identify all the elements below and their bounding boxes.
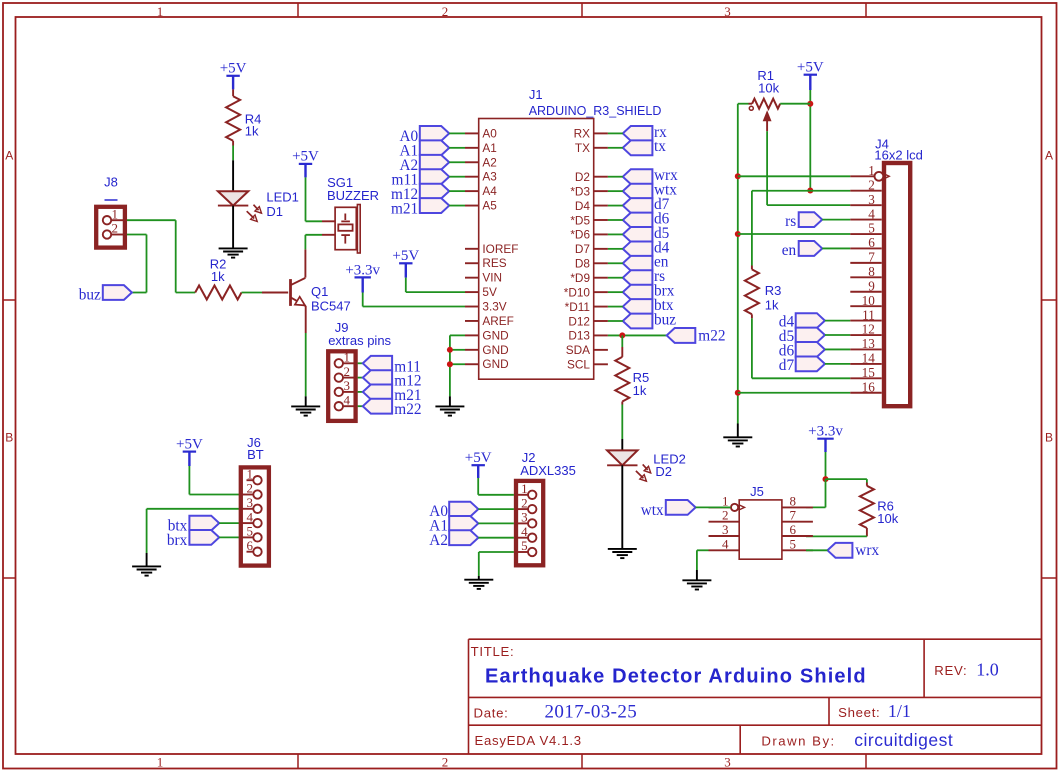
net flag d5 at J1 right bbox=[623, 227, 653, 242]
J2 pin 1 circle bbox=[528, 491, 536, 499]
wire J8 pin1 to R2 bbox=[127, 219, 176, 221]
J1 pin 3.3V stub bbox=[465, 306, 479, 308]
wire +5V to J6 pin2 bbox=[188, 466, 190, 495]
net flag wrx bbox=[828, 543, 853, 558]
svg-text:2: 2 bbox=[112, 221, 119, 236]
wire pin1 net bbox=[738, 175, 851, 177]
J1 pin D2 stub bbox=[594, 176, 608, 178]
svg-text:3: 3 bbox=[868, 192, 875, 207]
svg-text:1/1: 1/1 bbox=[888, 701, 911, 721]
J6 pin 5 circle bbox=[253, 533, 261, 541]
svg-text:SCL: SCL bbox=[567, 358, 590, 372]
svg-text:16: 16 bbox=[862, 379, 876, 394]
svg-text:A2: A2 bbox=[482, 155, 496, 169]
wire m21 to J1 bbox=[449, 205, 465, 207]
svg-text:4: 4 bbox=[521, 524, 528, 539]
wire J1 to buz bbox=[608, 320, 623, 322]
wire J2 pin5 to ground bbox=[479, 551, 514, 553]
svg-text:Q1: Q1 bbox=[311, 284, 328, 299]
svg-text:BT: BT bbox=[247, 447, 264, 462]
wire R1 wiper to pin3 bbox=[766, 131, 768, 205]
J4 pin 12 stub bbox=[850, 334, 881, 336]
potentiometer R1 10k bbox=[752, 99, 780, 109]
wire A0 to J2 pin2 bbox=[478, 508, 514, 510]
svg-text:*D6: *D6 bbox=[570, 228, 590, 242]
svg-text:A5: A5 bbox=[482, 199, 497, 213]
J4 pin 9 stub bbox=[850, 291, 881, 293]
wire pin2 net bbox=[752, 190, 850, 192]
ground at LED2 bbox=[608, 548, 637, 550]
svg-text:Sheet:: Sheet: bbox=[838, 705, 880, 720]
svg-text:wrx: wrx bbox=[855, 542, 879, 559]
J4 pin 6 stub bbox=[850, 247, 881, 249]
wire J1 to btx bbox=[608, 306, 623, 308]
svg-text:+3.3v: +3.3v bbox=[345, 262, 380, 278]
wire pin5 net bbox=[738, 233, 851, 235]
svg-text:A3: A3 bbox=[482, 170, 497, 184]
J5 pin1 indicator circle bbox=[731, 504, 738, 511]
J5 pin1 arrow bbox=[739, 505, 745, 510]
wire J9 pin 2 to m12 bbox=[358, 377, 363, 379]
J5 pin 4 stub bbox=[709, 549, 740, 551]
wire m12 to J1 bbox=[449, 190, 465, 192]
wire to ground (black) bbox=[449, 396, 451, 406]
svg-text:d7: d7 bbox=[779, 357, 795, 374]
J9 pin 2 stub bbox=[343, 377, 358, 379]
svg-text:D2: D2 bbox=[575, 170, 590, 184]
J1 pin AREF stub bbox=[465, 320, 479, 322]
J1 pin D12 stub bbox=[594, 320, 608, 322]
J8 pin 2 stub bbox=[111, 234, 127, 236]
wire Q1 emitter to ground bbox=[305, 306, 307, 333]
svg-text:1: 1 bbox=[521, 481, 528, 496]
svg-text:D12: D12 bbox=[568, 314, 590, 328]
wire J6 pin3 to ground bbox=[147, 508, 239, 510]
wire btx to J6 pin4 bbox=[219, 522, 238, 524]
wire +3.3v to junction bbox=[825, 452, 827, 479]
J1 pin A2 stub bbox=[465, 161, 479, 163]
svg-text:brx: brx bbox=[167, 532, 188, 549]
frame left tick bbox=[3, 577, 16, 579]
svg-text:RX: RX bbox=[574, 127, 591, 141]
wire J9 pin 1 to m11 bbox=[358, 362, 363, 364]
transistor Q1 BC547 bbox=[262, 292, 288, 294]
svg-text:J5: J5 bbox=[750, 484, 764, 499]
svg-text:B: B bbox=[1045, 431, 1053, 445]
connector J9 body bbox=[328, 351, 355, 421]
svg-text:7: 7 bbox=[868, 250, 875, 265]
net flag A1 at J1 left bbox=[420, 140, 449, 155]
J4 pin 4 stub bbox=[850, 219, 881, 221]
J1 pin GND stub bbox=[465, 349, 479, 351]
J9 pin 1 stub bbox=[343, 362, 358, 364]
svg-text:rs: rs bbox=[785, 213, 796, 230]
svg-text:1: 1 bbox=[344, 350, 351, 365]
LED LED2 D2 bbox=[607, 450, 637, 465]
wire pin16 net bbox=[738, 392, 851, 394]
wire d4 to pin11 bbox=[825, 320, 850, 322]
J6 pin 6 circle bbox=[253, 548, 261, 556]
net flag d7 at J1 right bbox=[623, 198, 653, 213]
svg-text:2: 2 bbox=[247, 481, 254, 496]
svg-text:4: 4 bbox=[868, 206, 875, 221]
junction node D13/R5 bbox=[619, 332, 625, 338]
resistor R2 bbox=[195, 286, 241, 300]
net flag wrx at J1 right bbox=[623, 169, 653, 184]
wire d7 to pin14 bbox=[825, 363, 850, 365]
svg-text:1: 1 bbox=[157, 4, 164, 19]
svg-text:1k: 1k bbox=[245, 123, 259, 138]
J6 pin 1 circle bbox=[253, 476, 261, 484]
wire GND pins bus bbox=[450, 334, 465, 336]
J4 pin 15 stub bbox=[850, 377, 881, 379]
svg-text:A: A bbox=[5, 149, 13, 163]
J1 pin D8 stub bbox=[594, 262, 608, 264]
net flag en bbox=[799, 241, 823, 256]
svg-text:GND: GND bbox=[482, 343, 508, 357]
svg-text:extras pins: extras pins bbox=[328, 333, 391, 348]
svg-text:BUZZER: BUZZER bbox=[327, 188, 379, 203]
J1 pin *D3 stub bbox=[594, 190, 608, 192]
wire junction to R6 bbox=[826, 478, 867, 480]
wire d6 to pin13 bbox=[825, 348, 850, 350]
J1 pin *D11 stub bbox=[594, 306, 608, 308]
J4 pin1 indicator circle bbox=[875, 172, 884, 181]
J1 pin SDA stub bbox=[594, 349, 608, 351]
wire LED2 to ground bbox=[621, 465, 623, 549]
svg-text:*D10: *D10 bbox=[564, 285, 591, 299]
svg-text:GND: GND bbox=[482, 357, 508, 371]
wire J1 to en bbox=[608, 262, 623, 264]
J9 pin 3 stub bbox=[343, 391, 358, 393]
wire J1 to rs bbox=[608, 277, 623, 279]
J1 pin *D5 stub bbox=[594, 219, 608, 221]
frame top tick bbox=[581, 3, 583, 17]
wire A2 to J1 bbox=[449, 161, 465, 163]
net flag m21 at J1 left bbox=[420, 198, 449, 213]
svg-text:8: 8 bbox=[868, 264, 875, 279]
svg-text:3: 3 bbox=[521, 510, 528, 525]
wire J1 to d7 bbox=[608, 205, 623, 207]
svg-text:7: 7 bbox=[790, 508, 797, 523]
svg-text:2: 2 bbox=[868, 177, 875, 192]
IC J1 ARDUINO_R3_SHIELD body bbox=[479, 119, 594, 380]
wire J8 pin2 to buz bbox=[127, 234, 147, 236]
net flag rs at J1 right bbox=[623, 270, 653, 285]
svg-text:ARDUINO_R3_SHIELD: ARDUINO_R3_SHIELD bbox=[529, 104, 662, 118]
junction bus / pin5 bbox=[735, 231, 741, 237]
svg-text:3.3V: 3.3V bbox=[482, 300, 506, 314]
svg-text:5V: 5V bbox=[482, 285, 497, 299]
svg-text:AREF: AREF bbox=[482, 314, 513, 328]
ground at J5 pin4 bbox=[682, 579, 711, 581]
wire J9 pin 4 to m22 bbox=[358, 405, 363, 407]
svg-text:3: 3 bbox=[724, 755, 731, 770]
J1 pin TX stub bbox=[594, 147, 608, 149]
svg-text:A2: A2 bbox=[429, 532, 448, 549]
svg-text:9: 9 bbox=[868, 278, 875, 293]
net flag m21 at J9 bbox=[363, 385, 392, 400]
J8 pin 1 stub bbox=[111, 219, 127, 221]
connector J4 body bbox=[884, 163, 910, 406]
wire J9 pin 3 to m21 bbox=[358, 391, 363, 393]
J4 pin 5 stub bbox=[850, 233, 881, 235]
wire J1 to wrx bbox=[608, 176, 623, 178]
J1 pin SCL stub bbox=[594, 363, 608, 365]
svg-text:TX: TX bbox=[575, 141, 590, 155]
net flag rs bbox=[799, 212, 823, 227]
svg-text:2: 2 bbox=[344, 364, 351, 379]
svg-text:10k: 10k bbox=[758, 81, 779, 96]
svg-text:+5V: +5V bbox=[176, 436, 203, 452]
wire +5V to J2 pin1 bbox=[477, 478, 479, 495]
J2 pin 1 stub bbox=[514, 494, 528, 496]
wire A0 to J1 bbox=[449, 132, 465, 134]
svg-text:6: 6 bbox=[247, 538, 254, 553]
J1 pin GND stub bbox=[465, 334, 479, 336]
J1 pin A5 stub bbox=[465, 205, 479, 207]
J1 pin D4 stub bbox=[594, 205, 608, 207]
svg-text:D2: D2 bbox=[655, 464, 672, 479]
net flag buz bbox=[103, 285, 132, 300]
net flag A2 at J2 bbox=[449, 530, 478, 545]
svg-text:+5V: +5V bbox=[392, 248, 419, 264]
connector J8 body bbox=[96, 207, 125, 248]
J4 pin 3 stub bbox=[850, 204, 881, 206]
svg-text:6: 6 bbox=[868, 235, 875, 250]
wire d5 to pin12 bbox=[825, 334, 850, 336]
J5 pin 8 stub bbox=[782, 506, 813, 508]
svg-text:*D9: *D9 bbox=[570, 271, 590, 285]
wire J1 to d5 bbox=[608, 233, 623, 235]
wire D13 to R5 bbox=[621, 335, 623, 347]
frame right tick bbox=[1042, 299, 1057, 301]
svg-text:D1: D1 bbox=[266, 204, 283, 219]
J4 pin 16 stub bbox=[850, 392, 881, 394]
J2 pin 3 stub bbox=[514, 522, 528, 524]
wire J5 pin5 to wrx bbox=[806, 549, 828, 551]
J6 pin 2 stub bbox=[239, 494, 254, 496]
svg-text:10: 10 bbox=[862, 293, 876, 308]
svg-text:1: 1 bbox=[247, 466, 254, 481]
wire junction to J5 pin8 bbox=[825, 479, 827, 507]
junction GND3 bbox=[447, 361, 453, 367]
J2 pin 2 circle bbox=[528, 505, 536, 513]
svg-text:m21: m21 bbox=[391, 200, 418, 217]
J9 pin 2 circle bbox=[335, 373, 343, 381]
J1 pin RES stub bbox=[465, 262, 479, 264]
wire A1 to J2 pin3 bbox=[478, 522, 514, 524]
svg-text:*D5: *D5 bbox=[570, 213, 590, 227]
svg-text:6: 6 bbox=[790, 522, 797, 537]
net flag A0 at J1 left bbox=[420, 126, 449, 141]
wire R1 right to +5V bbox=[780, 103, 810, 105]
wire LED1 to ground bbox=[232, 206, 234, 249]
svg-text:3: 3 bbox=[722, 522, 729, 537]
net flag btx at J1 right bbox=[623, 299, 653, 314]
junction GND2 bbox=[447, 347, 453, 353]
svg-text:12: 12 bbox=[862, 322, 875, 337]
wire +5V to 5V pin bbox=[405, 278, 407, 292]
net flag btx bbox=[189, 516, 219, 531]
connector J6 body bbox=[241, 467, 269, 565]
J5 pin 7 stub bbox=[782, 521, 813, 523]
J5 pin 1 stub bbox=[709, 506, 731, 508]
J4 pin 14 stub bbox=[850, 363, 881, 365]
ground at Q1 emitter bbox=[291, 405, 320, 407]
J9 pin 4 stub bbox=[343, 405, 358, 407]
net flag brx at J1 right bbox=[623, 285, 653, 300]
svg-text:2: 2 bbox=[521, 495, 528, 510]
svg-text:D7: D7 bbox=[575, 242, 590, 256]
svg-text:D8: D8 bbox=[575, 257, 591, 271]
wire J1 to rx bbox=[608, 132, 623, 134]
J4 pin 2 stub bbox=[850, 190, 881, 192]
net flag m12 at J1 left bbox=[420, 184, 449, 199]
svg-text:1.0: 1.0 bbox=[976, 660, 999, 680]
ground at J6 pin3 bbox=[132, 565, 161, 567]
svg-text:D13: D13 bbox=[568, 329, 590, 343]
net flag m11 at J9 bbox=[363, 356, 392, 371]
svg-text:*D11: *D11 bbox=[565, 300, 590, 314]
net flag A1 at J2 bbox=[449, 516, 478, 531]
wire J1 to wtx bbox=[608, 190, 623, 192]
J6 pin 1 stub bbox=[247, 479, 254, 481]
svg-text:4: 4 bbox=[344, 392, 351, 407]
J4 pin 13 stub bbox=[850, 348, 881, 350]
net flag rx at J1 right bbox=[623, 126, 653, 141]
svg-text:5: 5 bbox=[247, 524, 254, 539]
wire J1 to tx bbox=[608, 147, 623, 149]
J8 pin 2 circle bbox=[103, 230, 111, 238]
J8 label underline mark bbox=[105, 199, 118, 201]
wire R1 left to bus bbox=[738, 103, 749, 105]
svg-text:4: 4 bbox=[247, 509, 254, 524]
junction +5V / J4 pin2 net bbox=[807, 188, 813, 194]
resistor R5 bbox=[615, 357, 629, 402]
J1 pin VIN stub bbox=[465, 277, 479, 279]
J5 pin 2 stub bbox=[709, 521, 740, 523]
ground below J1 bbox=[435, 405, 464, 407]
frame bottom tick bbox=[865, 754, 867, 769]
frame right tick bbox=[1042, 577, 1057, 579]
svg-text:RES: RES bbox=[482, 256, 506, 270]
net flag d6 at J1 right bbox=[623, 213, 653, 228]
wire A2 to J2 pin4 bbox=[478, 537, 514, 539]
junction bus / pin16 bbox=[735, 390, 741, 396]
svg-text:+5V: +5V bbox=[797, 60, 824, 76]
LED LED1 D1 bbox=[218, 191, 248, 205]
SG1 pin stubs bbox=[322, 220, 335, 222]
J1 pin RX stub bbox=[594, 132, 608, 134]
svg-text:1: 1 bbox=[157, 755, 164, 770]
wire R3 to pin15 bbox=[752, 377, 850, 379]
wire R2 to Q1 base bbox=[242, 292, 263, 294]
svg-text:circuitdigest: circuitdigest bbox=[854, 730, 953, 750]
J1 pin D13 stub bbox=[594, 334, 608, 336]
svg-text:+5V: +5V bbox=[220, 61, 247, 77]
svg-text:VIN: VIN bbox=[482, 271, 502, 285]
svg-text:B: B bbox=[5, 431, 13, 445]
svg-text:1k: 1k bbox=[211, 269, 225, 284]
svg-text:16x2 lcd: 16x2 lcd bbox=[874, 148, 922, 163]
svg-text:REV:: REV: bbox=[934, 663, 967, 678]
J6 pin 5 stub bbox=[239, 536, 254, 538]
net flag brx bbox=[189, 530, 219, 545]
J5 pin 6 stub bbox=[782, 535, 813, 537]
svg-text:ADXL335: ADXL335 bbox=[520, 463, 576, 478]
frame top tick bbox=[865, 3, 867, 17]
svg-text:+3.3v: +3.3v bbox=[808, 424, 843, 440]
svg-text:*D3: *D3 bbox=[570, 184, 590, 198]
wire D13 to m22 and R5 bbox=[608, 334, 667, 336]
frame top tick bbox=[297, 3, 299, 17]
svg-text:3: 3 bbox=[344, 378, 351, 393]
net flag d4 at J4 bbox=[796, 313, 825, 328]
net flag buz at J1 right bbox=[623, 314, 653, 329]
svg-text:tx: tx bbox=[654, 138, 666, 155]
svg-text:A1: A1 bbox=[482, 141, 496, 155]
net flag d7 at J4 bbox=[796, 356, 825, 371]
net flag m22 at J9 bbox=[363, 399, 392, 414]
wire J1 to d4 bbox=[608, 248, 623, 250]
J6 pin 4 circle bbox=[253, 519, 261, 527]
svg-text:A: A bbox=[1045, 149, 1053, 163]
J6 pin 3 circle bbox=[253, 505, 261, 513]
resistor R3 bbox=[751, 191, 753, 266]
ground at J4 bus bbox=[723, 436, 752, 438]
svg-text:BC547: BC547 bbox=[311, 299, 351, 314]
J1 pin A1 stub bbox=[465, 147, 479, 149]
wire J5 pin4 to ground bbox=[697, 549, 709, 551]
frame bottom tick bbox=[581, 754, 583, 769]
ground at LED1 bbox=[219, 247, 248, 249]
buzzer SG1 bbox=[335, 207, 356, 249]
svg-text:wtx: wtx bbox=[641, 502, 664, 519]
svg-text:J1: J1 bbox=[529, 87, 543, 102]
junction bus / pin1 bbox=[735, 173, 741, 179]
svg-text:4: 4 bbox=[722, 536, 729, 551]
svg-text:3: 3 bbox=[247, 495, 254, 510]
svg-text:Earthquake Detector Arduino Sh: Earthquake Detector Arduino Shield bbox=[485, 665, 867, 687]
J1 pin D7 stub bbox=[594, 248, 608, 250]
J6 pin 3 stub bbox=[239, 508, 254, 510]
net flag d5 at J4 bbox=[796, 328, 825, 343]
frame left tick bbox=[3, 299, 16, 301]
wire J1 to brx bbox=[608, 291, 623, 293]
svg-text:2017-03-25: 2017-03-25 bbox=[545, 702, 638, 723]
wire +5V to R4 bbox=[232, 89, 234, 96]
wire R4 to LED1 bbox=[232, 141, 234, 146]
svg-text:buz: buz bbox=[79, 286, 101, 303]
junction R1 right / +5V bbox=[807, 101, 813, 107]
wire +3.3v to 3.3V pin bbox=[362, 293, 364, 307]
J4 pin 11 stub bbox=[850, 320, 881, 322]
frame bottom tick bbox=[297, 754, 299, 769]
svg-text:10k: 10k bbox=[877, 511, 898, 526]
svg-text:m22: m22 bbox=[394, 401, 421, 418]
net flag d6 at J4 bbox=[796, 342, 825, 357]
svg-text:EasyEDA V4.1.3: EasyEDA V4.1.3 bbox=[475, 733, 582, 748]
J2 pin 5 stub bbox=[514, 551, 528, 553]
svg-text:+5V: +5V bbox=[292, 149, 319, 165]
svg-text:3: 3 bbox=[724, 4, 731, 19]
J1 pin 5V stub bbox=[465, 291, 479, 293]
wire R5 to LED2 bbox=[621, 402, 623, 405]
svg-text:2: 2 bbox=[722, 508, 729, 523]
J1 pin GND stub bbox=[465, 363, 479, 365]
net flag d4 at J1 right bbox=[623, 241, 653, 256]
